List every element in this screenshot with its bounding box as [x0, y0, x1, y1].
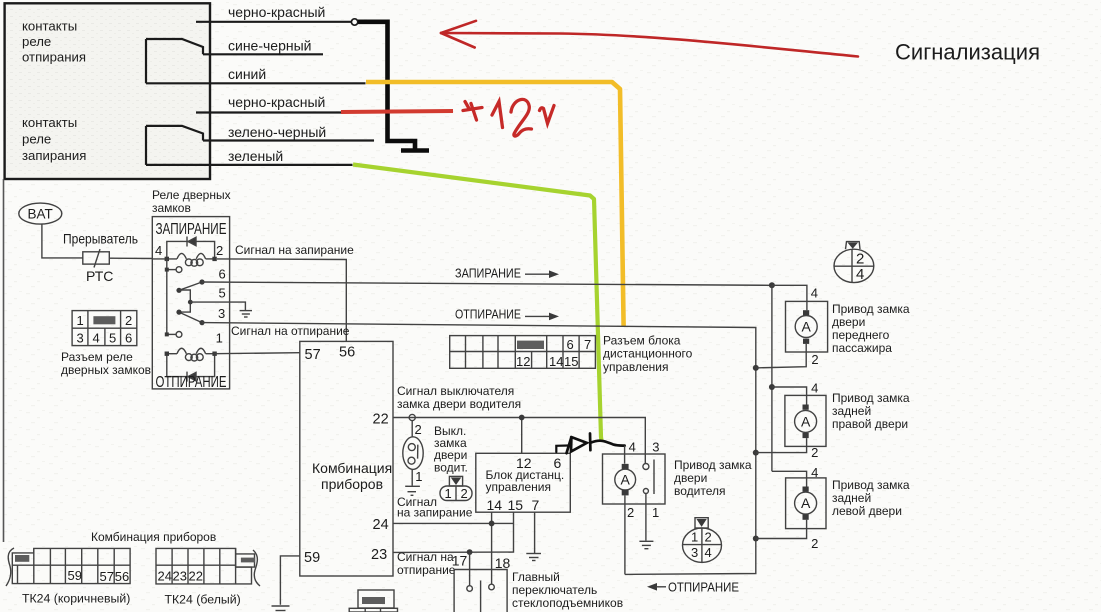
wire BAT to PTC: [42, 224, 83, 258]
svg-text:1: 1: [652, 505, 659, 520]
stem pin2 down to bottom bus: [624, 495, 626, 574]
junction dot actuator2 pin4: [769, 384, 775, 390]
wire pin23 -> pin15 (Сигнал на отпирание): [393, 512, 514, 552]
contact b (NO contact lower): [165, 332, 182, 338]
svg-text:4: 4: [856, 266, 864, 283]
top-right round connector 2/4: [834, 242, 874, 283]
wire синий: [146, 82, 366, 84]
motor: [795, 310, 817, 344]
svg-text:стеклоподъемников: стеклоподъемников: [512, 596, 623, 610]
svg-text:Комбинация приборов: Комбинация приборов: [91, 530, 216, 544]
svg-text:2: 2: [415, 422, 422, 437]
svg-text:Комбинация: Комбинация: [312, 460, 392, 476]
svg-text:Прерыватель: Прерыватель: [63, 231, 138, 247]
wire pin3 -> ОТПИРАНИЕ loop (right bus): [202, 323, 756, 575]
svg-text:12: 12: [516, 354, 530, 369]
svg-text:ЗАПИРАНИЕ: ЗАПИРАНИЕ: [455, 267, 521, 281]
driver door actuator box (Привод замка двери водителя): [603, 454, 666, 504]
svg-text:18: 18: [495, 555, 511, 571]
bottom small connector (cut off): [349, 590, 397, 612]
svg-text:59: 59: [68, 568, 82, 583]
actuator rear left: pin4 wire: [772, 471, 807, 486]
junction pin2: [212, 257, 216, 261]
motor: [795, 487, 817, 520]
remote control block box (Блок дистанц. управления): [476, 453, 571, 512]
svg-text:4: 4: [155, 243, 162, 258]
svg-text:переключатель: переключатель: [512, 583, 597, 597]
svg-text:5: 5: [219, 286, 226, 301]
svg-text:ТК24 (белый): ТК24 (белый): [165, 593, 241, 607]
svg-text:23: 23: [371, 547, 387, 563]
label Выкл. замка двери водит.: [434, 424, 468, 475]
svg-text:Главный: Главный: [512, 570, 560, 584]
unlock relay contact symbol (inside box): [146, 39, 203, 83]
hatch tab white: [241, 558, 255, 563]
svg-text:Разъем реле: Разъем реле: [61, 350, 133, 364]
svg-text:черно-красный: черно-красный: [228, 4, 325, 20]
svg-text:BAT: BAT: [28, 207, 53, 222]
TK24 brown connector table: [12, 548, 130, 583]
driver door round connector 1 2 / 3 4: [683, 518, 722, 563]
svg-text:15: 15: [508, 497, 524, 513]
svg-text:57: 57: [100, 569, 114, 584]
stem pin7 down to ground: [534, 512, 536, 553]
junction dot pin17/pin23: [467, 549, 473, 555]
label Сигнал выключателя замка двери водителя: [397, 384, 521, 411]
svg-text:РТС: РТС: [86, 268, 113, 284]
diode loop: [167, 241, 215, 259]
motor: [795, 405, 817, 439]
rear right actuator box: [785, 395, 826, 446]
connector hat (1|2): [449, 476, 462, 486]
svg-text:4: 4: [811, 381, 818, 396]
svg-text:ОТПИРАНИЕ: ОТПИРАНИЕ: [668, 581, 739, 595]
svg-text:реле: реле: [22, 34, 51, 49]
svg-text:57: 57: [305, 347, 321, 363]
label Привод замка двери переднего пассажира: [832, 302, 910, 355]
svg-text:1: 1: [415, 469, 422, 484]
junction pin4: [165, 257, 169, 261]
label Привод замка задней левой двери: [832, 478, 910, 518]
svg-text:56: 56: [339, 345, 355, 361]
stem pin14 down to pin18: [491, 512, 493, 584]
blade link to pin5: [179, 290, 190, 312]
svg-text:14: 14: [487, 497, 503, 513]
svg-text:2: 2: [627, 505, 634, 520]
svg-text:сине-черный: сине-черный: [228, 38, 311, 54]
red +12v wire segment: [341, 111, 453, 112]
svg-text:2: 2: [705, 530, 712, 545]
svg-text:отпирание: отпирание: [397, 563, 456, 577]
label Реле дверных замков: [152, 188, 231, 215]
svg-text:2: 2: [811, 536, 818, 551]
svg-text:двери: двери: [832, 315, 865, 329]
label Привод замка двери водителя: [674, 458, 752, 498]
orange wire (синий to remote block connector): [366, 82, 624, 326]
lock coil relay K1 internals: [152, 237, 214, 267]
table numbers: [516, 337, 591, 369]
svg-text:23: 23: [173, 569, 187, 584]
svg-text:24: 24: [158, 569, 172, 584]
stem to switch: [411, 421, 413, 437]
svg-text:Привод замка: Привод замка: [674, 458, 752, 472]
hatched cell: [517, 341, 544, 349]
svg-text:реле: реле: [22, 132, 51, 147]
TK24 white connector table: [156, 548, 255, 584]
stem pin4 down: [624, 446, 626, 464]
junction unlock coil right: [212, 352, 216, 356]
svg-text:4: 4: [93, 331, 100, 346]
svg-text:синий: синий: [228, 66, 266, 82]
svg-text:4: 4: [629, 440, 636, 455]
svg-text:22: 22: [189, 569, 203, 584]
svg-text:1: 1: [77, 313, 84, 328]
svg-text:59: 59: [304, 550, 320, 566]
ground at switch: [405, 486, 420, 495]
svg-text:2: 2: [125, 313, 132, 328]
svg-text:2: 2: [461, 486, 468, 501]
svg-text:A: A: [621, 472, 631, 488]
wire черно-красный (top, to alarm): [196, 19, 358, 25]
movable blade pin6: [176, 279, 204, 293]
wavy bracket right: [253, 550, 260, 586]
svg-text:14: 14: [549, 354, 563, 369]
wire pin2 -> pin56 (Сигнал на запирание): [217, 259, 346, 342]
table numbers 1 2 / 3 4 5 6: [77, 313, 133, 346]
svg-text:A: A: [802, 319, 812, 335]
instrument cluster box (Комбинация приборов): [300, 341, 393, 576]
svg-text:4: 4: [811, 286, 818, 301]
ground at pin59: [272, 606, 290, 611]
svg-text:6: 6: [567, 337, 574, 352]
actuator rear right: pin4 wire: [772, 387, 807, 405]
pin18 contact circle: [489, 584, 495, 590]
stem pin12 up to junction: [521, 418, 523, 454]
svg-text:1: 1: [445, 486, 452, 501]
page border line (left): [3, 179, 5, 542]
svg-text:запирания: запирания: [22, 148, 86, 163]
movable blade pin3: [176, 310, 204, 326]
stem to ground: [411, 469, 413, 485]
stem pin6 up to diode: [555, 445, 557, 453]
label Главный переключатель стеклоподъемников: [512, 570, 623, 610]
wire pin22 -> driver door actuator pin3 (Сигнал выключателя): [393, 418, 645, 464]
stem pin1 to ground: [645, 494, 647, 541]
svg-text:ТК24 (коричневый): ТК24 (коричневый): [22, 592, 130, 606]
contact circle pin3: [643, 464, 649, 470]
svg-text:3: 3: [218, 306, 225, 321]
numbers 59 57 56: [68, 568, 130, 584]
svg-text:17: 17: [452, 553, 468, 569]
junction dot pin14/pin24: [489, 521, 495, 527]
svg-text:A: A: [801, 495, 811, 511]
svg-text:переднего: переднего: [832, 328, 890, 342]
pin17 contact circle: [467, 586, 473, 592]
svg-text:черно-красный: черно-красный: [228, 94, 325, 110]
PTC interrupter: [83, 249, 110, 267]
hatched cell: [93, 316, 115, 324]
svg-text:24: 24: [373, 517, 389, 533]
junction dot pin12: [519, 415, 525, 421]
svg-text:1: 1: [691, 530, 698, 545]
svg-text:на запирание: на запирание: [397, 506, 473, 520]
svg-text:15: 15: [564, 354, 578, 369]
svg-text:Сигнал на запирание: Сигнал на запирание: [235, 243, 354, 257]
svg-text:7: 7: [532, 497, 540, 513]
door lock relay box: [152, 217, 229, 389]
svg-text:управления: управления: [603, 360, 668, 374]
contact circle pin1: [643, 489, 648, 494]
svg-text:Разъем блока: Разъем блока: [603, 334, 681, 348]
svg-text:контакты: контакты: [22, 19, 77, 34]
relay connector table (Разъем реле дверных замков): [72, 311, 137, 346]
label Блок дистанц. управления: [486, 468, 565, 494]
label ЗАПИРАНИЕ with arrow: [455, 267, 559, 281]
wire сине-черный: [203, 53, 323, 55]
svg-text:контакты: контакты: [22, 115, 77, 130]
green wire (зеленый to diode): [353, 165, 602, 441]
svg-text:зелено-черный: зелено-черный: [228, 124, 326, 140]
wire PTC to relay pin 4: [109, 257, 152, 259]
svg-text:замков: замков: [152, 201, 191, 215]
front passenger actuator box: [786, 301, 828, 352]
box contacts-of-relays (контакты реле): [5, 3, 210, 179]
svg-text:дистанционного: дистанционного: [603, 347, 693, 361]
wire pin5 -> ground: [190, 302, 245, 310]
wire pin1 -> pin57: [215, 353, 300, 354]
svg-text:водителя: водителя: [674, 484, 726, 498]
motor M1: [615, 464, 636, 496]
red hand-drawn arrow to Сигнализация: [441, 21, 858, 57]
svg-text:двери: двери: [674, 471, 707, 485]
svg-text:ОТПИРАНИЕ: ОТПИРАНИЕ: [156, 374, 227, 391]
svg-text:управления: управления: [486, 480, 551, 494]
svg-text:7: 7: [584, 337, 591, 352]
svg-text:3: 3: [652, 440, 659, 455]
svg-text:отпирания: отпирания: [22, 50, 86, 65]
heavy black alarm wire with ground bar: [358, 22, 429, 151]
svg-text:22: 22: [373, 412, 389, 428]
connector table (Разъем блока дистанционного управления): [450, 336, 596, 369]
switch blade: [480, 581, 482, 612]
label ОТПИРАНИЕ with left arrow (bottom): [647, 581, 739, 595]
numbers 24 23 22: [158, 569, 203, 584]
label: контакты реле запирания: [22, 115, 86, 163]
battery BAT: [19, 203, 62, 224]
left rail of relay contacts: [166, 259, 168, 335]
svg-text:Реле дверных: Реле дверных: [152, 188, 231, 202]
switch oval (Выкл. замка двери водит.): [403, 437, 423, 470]
wire зеленый: [146, 164, 353, 166]
junction circle on wire (pin2 of switch): [409, 414, 415, 420]
svg-text:ЗАПИРАНИЕ: ЗАПИРАНИЕ: [156, 221, 227, 238]
pin5 junction: [188, 300, 193, 305]
switch contact bottom: [408, 457, 415, 464]
svg-text:2: 2: [216, 243, 223, 258]
small connector 1|2: [440, 486, 472, 501]
svg-text:замка двери водителя: замка двери водителя: [397, 397, 521, 411]
rear left actuator box: [786, 478, 826, 529]
wire pin24 -> pin14 junction: [393, 522, 514, 524]
wire pin59 -> ground: [280, 556, 299, 605]
svg-text:задней: задней: [832, 404, 871, 418]
pin2 wire: [756, 520, 807, 539]
ground at pin1: [639, 541, 653, 548]
svg-text:2: 2: [811, 352, 818, 367]
svg-text:3: 3: [691, 545, 698, 560]
junction dots on unlock bus: [753, 365, 759, 371]
junction dot lock bus top: [769, 282, 775, 288]
wire зелено-черный: [203, 139, 374, 141]
label Разъем блока дистанционного управления: [603, 334, 693, 375]
wire pin6 -> ЗАПИРАНИЕ bus: [202, 282, 772, 285]
label: контакты реле отпирания: [22, 19, 86, 65]
svg-text:ОТПИРАНИЕ: ОТПИРАНИЕ: [455, 308, 521, 322]
svg-text:Привод замка: Привод замка: [832, 302, 910, 316]
svg-text:3: 3: [77, 331, 84, 346]
wavy bracket left: [6, 548, 14, 586]
svg-text:Привод замка: Привод замка: [832, 478, 910, 492]
pin2 wire: [756, 344, 806, 368]
svg-text:56: 56: [115, 569, 129, 584]
label ОТПИРАНИЕ with arrow (top): [455, 308, 559, 322]
svg-text:2: 2: [811, 445, 818, 460]
contact a (NO contact upper): [165, 267, 182, 273]
svg-text:5: 5: [109, 331, 116, 346]
actuator front passenger: pin4 wire: [772, 285, 807, 310]
lock relay contact symbol (inside box): [146, 126, 203, 165]
svg-text:Сигнал на: Сигнал на: [397, 550, 454, 564]
junction unlock coil left: [165, 352, 169, 356]
svg-text:4: 4: [705, 545, 712, 560]
svg-text:6: 6: [125, 331, 132, 346]
svg-text:водит.: водит.: [434, 461, 468, 475]
hand-drawn diode (green wire to pin4/pin6): [556, 434, 624, 454]
label Сигнал на отпирание (pin23): [397, 550, 456, 577]
svg-text:2: 2: [856, 251, 864, 268]
label Разъем реле дверных замков: [61, 350, 151, 377]
svg-text:A: A: [801, 414, 811, 430]
svg-text:Сигнал на отпирание: Сигнал на отпирание: [231, 324, 350, 338]
svg-text:Привод замка: Привод замка: [832, 391, 910, 405]
red handwritten +12v: [463, 99, 554, 136]
switch contact top: [408, 444, 415, 451]
svg-text:задней: задней: [832, 491, 871, 505]
diode (points left): [188, 237, 196, 245]
pin2 wire: [756, 438, 807, 453]
switch blade: [417, 445, 419, 459]
svg-text:пассажира: пассажира: [832, 341, 892, 355]
label Привод замка задней правой двери: [832, 391, 910, 431]
hatch tab brown: [15, 555, 29, 562]
svg-text:левой двери: левой двери: [832, 504, 902, 518]
label Комбинация приборов: [312, 460, 392, 492]
coil on pin4-pin2 line: [152, 258, 177, 260]
stem pin17 down: [469, 552, 471, 586]
svg-text:приборов: приборов: [321, 476, 383, 492]
svg-text:Сигнализация: Сигнализация: [895, 40, 1040, 65]
label Сигнал на запирание (pin24): [397, 495, 473, 520]
svg-text:1: 1: [216, 331, 223, 346]
svg-text:дверных замков: дверных замков: [61, 363, 151, 377]
wire черно-красный #2 (+12v feed): [196, 111, 342, 113]
ground at pin7: [526, 554, 541, 561]
svg-text:Сигнал выключателя: Сигнал выключателя: [397, 384, 514, 398]
svg-text:зеленый: зеленый: [228, 148, 283, 164]
ground at pin5: [240, 311, 252, 317]
contact blade: [653, 460, 655, 495]
svg-text:6: 6: [219, 267, 226, 282]
window switch box (cut off at bottom): [454, 570, 507, 612]
lock bus vertical: [771, 285, 773, 471]
svg-text:правой двери: правой двери: [832, 417, 908, 431]
unlock coil relay internals: [167, 348, 215, 381]
